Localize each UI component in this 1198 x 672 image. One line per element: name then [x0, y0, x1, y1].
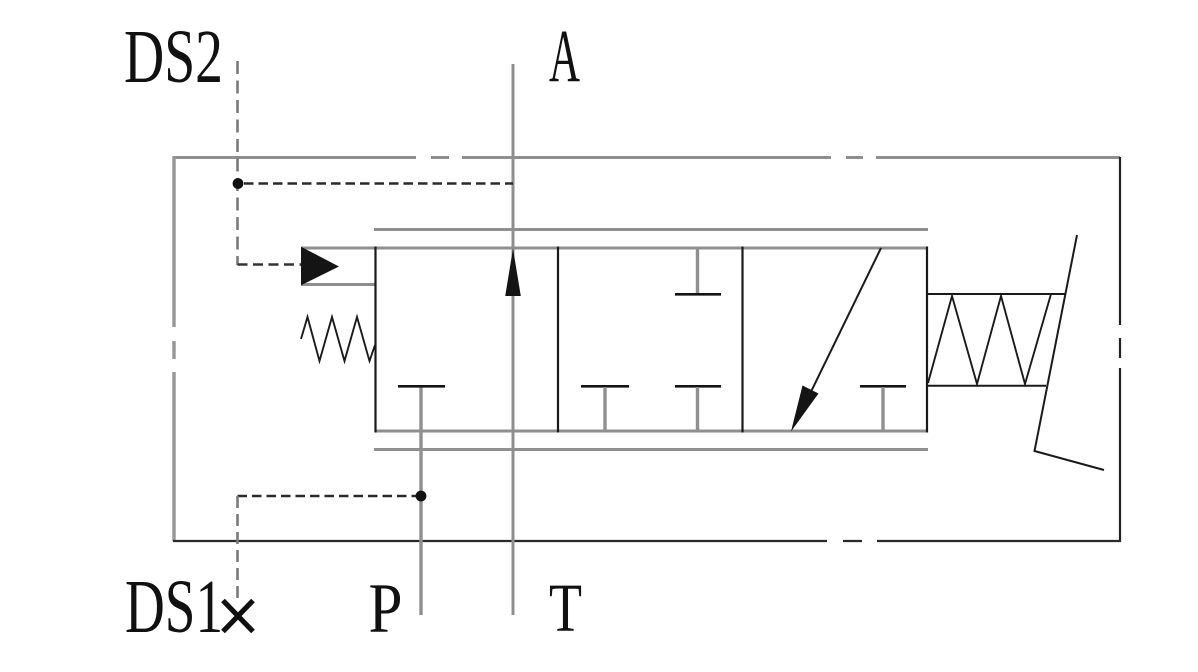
svg-text:T: T — [549, 570, 582, 646]
valve body bottom edge — [375, 430, 927, 433]
DS2 pilot line vertical dashed — [236, 61, 239, 265]
box1 flow arrow up (P to A) — [505, 249, 521, 297]
box2 blocked port top (inverted T) — [675, 293, 721, 296]
box3 stem — [881, 387, 884, 431]
DS1 junction dot on P line — [416, 491, 427, 502]
enclosure bottom border — [173, 540, 1121, 542]
valve box 2/3 shared edge — [741, 247, 743, 433]
DS1 pilot dashed vertical — [236, 496, 239, 600]
DS1 plugged marker X — [223, 601, 253, 632]
valve box 3 right edge — [926, 247, 928, 433]
DS2 pilot elbow to actuator (dashed) — [238, 263, 302, 265]
lower parallel line below valve body — [374, 448, 928, 451]
pilot cap bottom line — [301, 283, 375, 286]
enclosure left border — [172, 156, 175, 541]
pilot actuator arrow (filled triangle) — [301, 247, 339, 286]
svg-text:DS2: DS2 — [124, 15, 223, 99]
box3 diagonal arrowhead — [791, 386, 819, 432]
box2 blocked port bottom-right (T bar) — [675, 385, 721, 388]
box2 top stem — [696, 248, 699, 293]
svg-text:DS1: DS1 — [125, 565, 223, 649]
box3 blocked port (T bar) — [860, 385, 906, 388]
valve body top edge — [301, 247, 927, 250]
svg-text:A: A — [549, 15, 580, 98]
valve box 1 left edge — [374, 247, 376, 433]
DS2 junction dot — [233, 178, 244, 189]
enclosure right border — [1119, 157, 1121, 542]
DS2 branch dashed to A line — [244, 182, 513, 184]
box2 bottom-left stem — [603, 387, 606, 431]
enclosure top border — [174, 156, 1120, 159]
box1 blocked port P (T bar) — [398, 385, 445, 388]
port line A (vertical grey through valve) — [512, 64, 515, 615]
box2 blocked port bottom-left (T bar) — [581, 385, 629, 388]
svg-text:P: P — [369, 570, 403, 648]
box3 diagonal flow line — [806, 248, 881, 402]
manual lever — [1035, 235, 1105, 470]
port line P (vertical grey) — [419, 386, 422, 615]
upper parallel line above valve body — [374, 228, 928, 231]
DS1 pilot dashed horizontal — [238, 495, 417, 497]
right spring zigzag — [928, 294, 1051, 384]
valve box 1/2 shared edge — [557, 247, 559, 433]
box2 bottom-right stem — [696, 387, 699, 431]
left return spring — [301, 317, 375, 361]
right spring bottom plate — [927, 385, 1046, 387]
right spring top plate — [927, 293, 1066, 295]
